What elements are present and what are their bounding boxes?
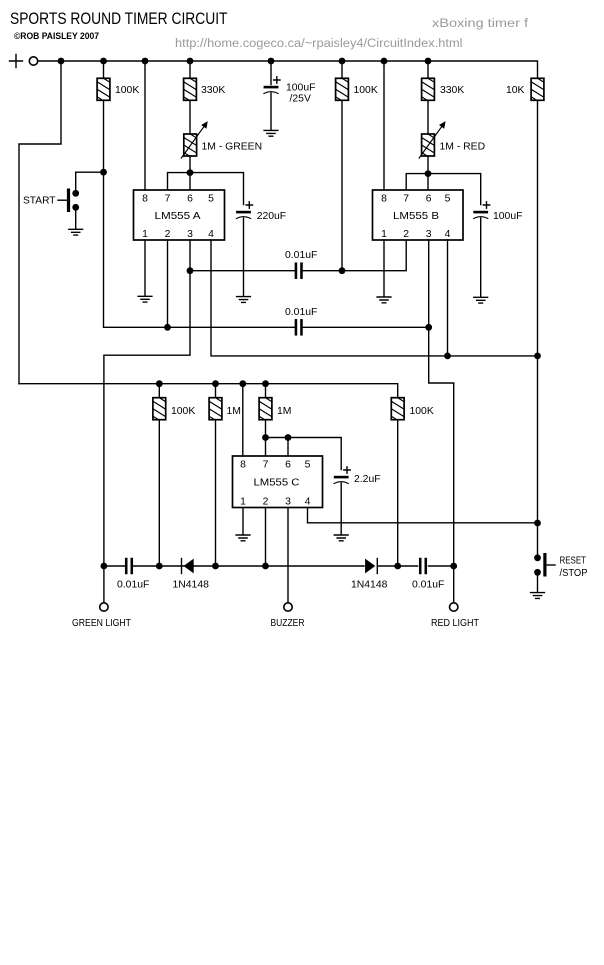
wire reset rail down right side — [537, 100, 539, 557]
wire 100uF-B to ground — [480, 218, 482, 297]
svg-text:100K: 100K — [410, 406, 434, 417]
svg-text:1M - RED: 1M - RED — [440, 142, 486, 153]
wire 2.2uF to ground — [340, 483, 342, 535]
svg-text:100uF: 100uF — [286, 83, 315, 94]
resistor 1M (second) — [258, 393, 274, 433]
svg-text:1M: 1M — [277, 406, 291, 417]
svg-text:START: START — [23, 196, 56, 207]
wire trigger coupling line to cap2 — [168, 326, 429, 328]
wire 220uF-A to ground — [243, 218, 245, 296]
wire pin8 A to rail — [144, 61, 146, 190]
wire 100K-B bottom to pin3A-pin2B line — [341, 100, 343, 270]
node pot junction dot A — [187, 169, 194, 176]
op-amp U2 LM555 B box — [373, 190, 464, 240]
potentiometer 1M GREEN — [181, 121, 208, 169]
svg-text:330K: 330K — [440, 85, 464, 96]
node GREEN LIGHT terminal — [100, 603, 108, 611]
wire pin6/7 C junction line — [266, 438, 342, 470]
svg-text:LM555 A: LM555 A — [155, 211, 201, 222]
svg-text:8: 8 — [240, 460, 246, 471]
svg-text:5: 5 — [305, 460, 311, 471]
svg-text:220uF: 220uF — [257, 211, 286, 222]
node BUZZER terminal — [284, 603, 292, 611]
wire 100K lower-right bottom to rail — [397, 420, 399, 566]
wire 330K-A top lead — [189, 61, 191, 78]
node pin2A trigger dot — [164, 324, 171, 331]
resistor 100K (lower right) — [390, 393, 406, 433]
wire pin6 B stub — [427, 174, 429, 190]
svg-text:0.01uF: 0.01uF — [285, 250, 317, 261]
switch START pushbutton — [23, 189, 79, 213]
node pin3B dot — [425, 324, 432, 331]
node reset rail dot — [534, 353, 541, 360]
V+ terminal plus symbol — [10, 55, 23, 68]
wire pin4 B stub — [447, 240, 449, 356]
node pin6C dot — [285, 434, 292, 441]
svg-text:GREEN LIGHT: GREEN LIGHT — [72, 618, 132, 629]
wire 100K-C top lead — [158, 384, 160, 398]
ground RESET — [531, 593, 545, 599]
wire pin2 A to trigger line — [167, 240, 169, 327]
svg-text:10K: 10K — [506, 85, 525, 96]
wire pin7/6/cap junction B — [406, 174, 481, 205]
svg-text:100K: 100K — [171, 406, 195, 417]
svg-text:1: 1 — [381, 229, 387, 240]
svg-text:1: 1 — [142, 229, 148, 240]
wire 1M-2 top lead — [265, 384, 267, 398]
resistor 330K (timer B) — [420, 73, 436, 113]
node output rail dots — [101, 563, 458, 570]
svg-text:3: 3 — [285, 497, 291, 508]
wire V+ top rail — [38, 61, 538, 78]
node trigger junction dot — [100, 169, 107, 176]
wire 100K-A top lead — [103, 61, 105, 78]
svg-text:RED LIGHT: RED LIGHT — [431, 618, 480, 629]
svg-text:330K: 330K — [201, 85, 225, 96]
op-amp U1 LM555 A box — [134, 190, 225, 240]
svg-text:8: 8 — [381, 194, 387, 205]
wire 100K-B top lead — [341, 61, 343, 78]
svg-text:8: 8 — [142, 194, 148, 205]
svg-text:4: 4 — [208, 229, 214, 240]
node rail junction dots — [58, 58, 432, 65]
node pin7C dot — [262, 434, 269, 441]
capacitor 100uF (timer B) — [473, 202, 490, 219]
capacitor 0.01uF (red light) — [419, 558, 427, 575]
wire pin4 A reset line across — [211, 240, 538, 356]
potentiometer 1M RED — [419, 121, 446, 169]
resistor 330K (timer A) — [182, 73, 198, 113]
wire pin3 C to buzzer — [287, 508, 289, 603]
svg-text:6: 6 — [426, 194, 432, 205]
svg-text:http://home.cogeco.ca/~rpaisle: http://home.cogeco.ca/~rpaisley4/Circuit… — [175, 38, 463, 50]
svg-text:2.2uF: 2.2uF — [354, 474, 381, 485]
wire pin6 A stub — [189, 173, 191, 190]
capacitor 0.01uF (green light) — [125, 558, 133, 575]
wire pin7/6/cap junction A — [168, 173, 244, 205]
wire pin1 C to ground — [242, 508, 244, 535]
node bus dots — [156, 380, 269, 387]
wire pot to pin6/7 node A — [189, 156, 191, 173]
wire RESET to ground — [537, 572, 539, 592]
node reset/pin4C junction dot — [534, 520, 541, 527]
ground pin1 C — [236, 535, 250, 541]
wire 1M-2 bottom to pin6/7 C — [265, 420, 267, 438]
resistor 100K (lower left) — [151, 393, 167, 433]
svg-text:©ROB PAISLEY 2007: ©ROB PAISLEY 2007 — [14, 31, 99, 42]
svg-text:SPORTS ROUND TIMER CIRCUIT: SPORTS ROUND TIMER CIRCUIT — [10, 10, 228, 28]
wire pin2 C to rail — [265, 508, 267, 567]
wire pin3A to pin2B coupling line — [190, 240, 406, 271]
ground 220uF-A — [237, 297, 251, 303]
resistor 1M (first) — [208, 393, 224, 433]
svg-text:LM555 C: LM555 C — [254, 478, 301, 489]
wire pin1 A to ground — [144, 240, 146, 296]
wire left rail V+ down to lower bus — [19, 61, 61, 384]
svg-text:3: 3 — [426, 229, 432, 240]
ground pin1 A — [138, 296, 152, 302]
svg-text:0.01uF: 0.01uF — [285, 307, 317, 318]
svg-text:100K: 100K — [115, 85, 139, 96]
capacitor 220uF (timer A) — [236, 202, 253, 219]
wire pin3 B output down to red light line — [429, 240, 454, 566]
diode 1N4148 (left, pointing left) — [173, 559, 210, 591]
switch RESET/STOP pushbutton — [534, 553, 587, 579]
wire 100uF/25V to ground — [270, 93, 272, 130]
wire 330K-A to pot — [189, 100, 191, 134]
resistor 100K (trigger pull-up A) — [96, 73, 112, 113]
ground pin1 B — [377, 297, 391, 303]
svg-text:RESET: RESET — [560, 556, 587, 567]
svg-text:0.01uF: 0.01uF — [117, 580, 149, 591]
wire 100K-A bottom to trigger node — [104, 100, 168, 327]
node pin3A dot — [187, 267, 194, 274]
svg-text:100K: 100K — [354, 85, 378, 96]
svg-text:1M: 1M — [227, 406, 241, 417]
diode 1N4148 (right, pointing right) — [351, 559, 388, 591]
svg-text:7: 7 — [403, 194, 409, 205]
svg-text:0.01uF: 0.01uF — [412, 580, 444, 591]
wire START branch — [76, 172, 104, 191]
wire 1M-1 bottom to rail — [215, 420, 217, 566]
node pot junction dot B — [425, 170, 432, 177]
resistor 10K (reset pull-up) — [530, 73, 546, 113]
wire lower V+ bus — [19, 384, 398, 398]
wire 330K-B to pot — [427, 100, 429, 134]
svg-text:4: 4 — [445, 229, 451, 240]
node pin4B reset dot — [444, 353, 451, 360]
wire 330K-B top lead — [427, 61, 429, 78]
wire pin1 B to ground — [383, 240, 385, 297]
svg-text:7: 7 — [263, 460, 269, 471]
svg-text:2: 2 — [165, 229, 171, 240]
ground 100uF-B — [474, 297, 488, 303]
wire pin8 B to rail — [383, 61, 385, 190]
resistor 100K (trigger pull-up B) — [334, 73, 350, 113]
node 100K-B junction dot — [339, 267, 346, 274]
svg-text:1M - GREEN: 1M - GREEN — [202, 142, 263, 153]
svg-text:5: 5 — [445, 194, 451, 205]
wire 1M-1 top lead — [215, 384, 217, 398]
svg-text:/25V: /25V — [290, 94, 311, 105]
svg-text:BUZZER: BUZZER — [271, 618, 305, 629]
ground 100uF/25V — [264, 130, 278, 136]
svg-text:5: 5 — [208, 194, 214, 205]
svg-text:3: 3 — [187, 229, 193, 240]
ground START — [69, 229, 83, 235]
capacitor 100uF/25V supply — [263, 77, 280, 94]
svg-text:1: 1 — [240, 497, 246, 508]
wire 100uF/25V top lead — [270, 61, 272, 85]
svg-text:2: 2 — [263, 497, 269, 508]
capacitor 2.2uF (timer C) — [334, 467, 351, 484]
ground 2.2uF — [334, 535, 348, 541]
svg-text:xBoxing timer f: xBoxing timer f — [432, 18, 529, 30]
V+ terminal circle — [29, 57, 37, 65]
svg-text:6: 6 — [285, 460, 291, 471]
wire 100K lower-right top lead — [397, 397, 399, 399]
wire bottom output rail — [104, 565, 454, 567]
svg-text:7: 7 — [165, 194, 171, 205]
svg-text:LM555 B: LM555 B — [393, 211, 439, 222]
svg-text:1N4148: 1N4148 — [173, 580, 210, 591]
svg-text:6: 6 — [187, 194, 193, 205]
node RED LIGHT terminal — [450, 603, 458, 611]
wire pin3 A output down — [104, 240, 190, 566]
svg-text:2: 2 — [403, 229, 409, 240]
svg-text:1N4148: 1N4148 — [351, 580, 388, 591]
capacitor 0.01uF (output A to trigger B) — [295, 262, 303, 279]
wire pin4 C to reset rail — [308, 508, 538, 523]
wire pin8 C to bus — [242, 384, 244, 456]
svg-text:100uF: 100uF — [493, 211, 522, 222]
wire pot to pin6/7 node B — [427, 156, 429, 174]
wire red light terminal lead — [453, 566, 455, 603]
wire START to ground — [75, 207, 77, 229]
svg-text:/STOP: /STOP — [560, 568, 588, 579]
capacitor 0.01uF (trigger B to A) — [295, 319, 303, 336]
svg-text:4: 4 — [305, 497, 311, 508]
wire green light terminal lead — [103, 566, 105, 603]
op-amp U3 LM555 C box — [233, 456, 323, 508]
wire 100K-C bottom to green rail — [158, 420, 160, 566]
